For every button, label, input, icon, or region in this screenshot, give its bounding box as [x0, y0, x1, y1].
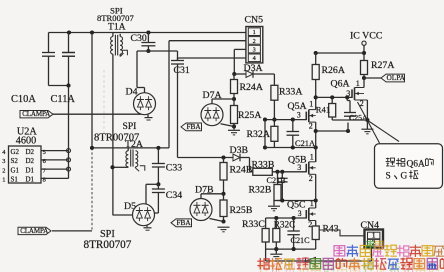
svg-text:G2: G2: [11, 148, 20, 156]
svg-text:R33C: R33C: [242, 219, 265, 230]
svg-text:2: 2: [253, 38, 256, 45]
svg-text:1: 1: [310, 199, 314, 208]
svg-text:D1: D1: [26, 166, 35, 174]
svg-text:R32A: R32A: [247, 129, 270, 140]
svg-text:SPI: SPI: [123, 121, 137, 132]
svg-text:R43: R43: [323, 224, 339, 235]
svg-text:R25A: R25A: [238, 110, 261, 121]
svg-text:3: 3: [2, 158, 5, 165]
svg-text:S2: S2: [11, 157, 19, 165]
svg-text:1: 1: [309, 100, 313, 109]
svg-text:G1: G1: [11, 166, 20, 174]
svg-text:3: 3: [297, 163, 301, 172]
svg-text:D3B: D3B: [230, 145, 249, 156]
svg-text:1: 1: [2, 177, 5, 184]
svg-text:FBA: FBA: [177, 218, 192, 227]
svg-text:3: 3: [298, 209, 302, 218]
svg-text:1: 1: [356, 79, 360, 88]
svg-text:2: 2: [309, 174, 313, 183]
svg-text:4: 4: [253, 55, 256, 62]
svg-text:R32B: R32B: [249, 184, 272, 195]
svg-text:S1: S1: [11, 176, 19, 184]
svg-text:1: 1: [310, 153, 314, 162]
svg-text:Q6A: Q6A: [331, 78, 350, 89]
svg-text:D1: D1: [26, 176, 35, 184]
svg-text:3: 3: [253, 47, 256, 54]
svg-text:3: 3: [346, 89, 350, 98]
svg-text:R27A: R27A: [371, 60, 394, 71]
svg-text:FBA: FBA: [187, 122, 202, 131]
svg-text:R41: R41: [316, 104, 330, 114]
svg-text:8: 8: [43, 177, 46, 184]
svg-text:C11A: C11A: [51, 94, 76, 105]
svg-text:C33: C33: [166, 162, 182, 173]
svg-text:R24B: R24B: [230, 164, 253, 175]
svg-text:OLPA: OLPA: [387, 73, 406, 82]
svg-text:CLAMPA: CLAMPA: [22, 110, 50, 118]
svg-text:C21A: C21A: [295, 139, 315, 148]
svg-text:2: 2: [2, 167, 5, 174]
svg-text:6: 6: [43, 158, 46, 165]
svg-text:C21C: C21C: [291, 236, 311, 245]
svg-text:D2: D2: [26, 157, 35, 165]
svg-text:D2: D2: [26, 148, 35, 156]
svg-text:R25B: R25B: [230, 205, 253, 216]
svg-text:T1A: T1A: [108, 22, 126, 33]
svg-text:Q6A: Q6A: [407, 159, 425, 169]
svg-text:IC VCC: IC VCC: [350, 31, 383, 42]
svg-text:5: 5: [43, 149, 46, 156]
svg-text:4600: 4600: [16, 136, 36, 147]
svg-text:R32C: R32C: [274, 219, 295, 229]
svg-text:R33A: R33A: [279, 86, 302, 97]
svg-text:3: 3: [297, 111, 301, 120]
svg-text:C10A: C10A: [11, 94, 36, 105]
svg-text:2: 2: [309, 122, 313, 131]
svg-text:R24A: R24A: [240, 82, 263, 93]
svg-text:1: 1: [253, 29, 256, 36]
svg-text:R26A: R26A: [322, 65, 345, 76]
svg-text:CN5: CN5: [245, 14, 264, 25]
svg-text:C34: C34: [166, 190, 182, 201]
svg-text:S: S: [386, 172, 391, 182]
svg-text:R33B: R33B: [252, 159, 275, 170]
svg-text:C21B: C21B: [267, 176, 287, 185]
svg-text:m: m: [428, 260, 437, 271]
svg-text:8TR00707: 8TR00707: [84, 239, 132, 251]
svg-text:D4: D4: [126, 87, 138, 98]
svg-text:CLAMPA: CLAMPA: [20, 227, 48, 235]
svg-text:C31: C31: [174, 65, 190, 76]
svg-text:G: G: [401, 172, 408, 182]
svg-text:D5: D5: [124, 201, 136, 212]
svg-text:Q5C: Q5C: [287, 200, 306, 211]
